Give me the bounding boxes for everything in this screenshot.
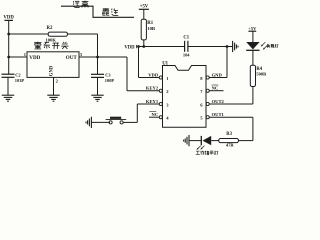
ground (below C2) — [2, 95, 14, 101]
hall GND pin stub wire — [53, 77, 55, 95]
svg-text:5: 5 — [200, 116, 203, 121]
wire ground to switch — [91, 121, 110, 123]
wire LED D1 to R4 — [252, 50, 254, 65]
ground (switch, rotated left) — [86, 117, 91, 128]
svg-text:VDD: VDD — [124, 45, 135, 50]
label 工作指示灯 — [196, 151, 218, 155]
power symbol VDD (top-left) — [3, 15, 14, 34]
wire R1 to VDD rail — [143, 40, 145, 47]
svg-text:+5V: +5V — [248, 26, 257, 31]
ground (below hall switch) — [47, 95, 59, 101]
svg-text:10R: 10R — [147, 26, 156, 31]
hall pin label GND (rotated) — [50, 65, 55, 76]
node: VDD rail / R1 junction — [142, 45, 145, 48]
ground (top, rotated right) — [227, 41, 238, 52]
svg-text:2: 2 — [56, 79, 58, 84]
label 靠近 (near) — [102, 8, 118, 15]
power symbol +5V (above R1) — [139, 4, 149, 19]
svg-text:7: 7 — [200, 89, 203, 94]
LED D2 工作指示灯 (work indicator) — [201, 136, 211, 145]
svg-text:NC: NC — [212, 86, 219, 91]
svg-text:100K: 100K — [46, 38, 57, 43]
svg-text:OUT1: OUT1 — [212, 112, 225, 117]
push-button switch S1 — [106, 117, 127, 124]
wire VDD rail — [139, 46, 185, 48]
U1 pin 8 (GND) — [200, 73, 222, 81]
svg-text:8: 8 — [200, 76, 203, 81]
svg-text:4: 4 — [166, 116, 169, 121]
svg-text:6: 6 — [200, 102, 203, 107]
U1 pin 2 (KEY2) — [146, 86, 169, 94]
U1 pin 5 (OUT1) — [200, 112, 224, 120]
pin number 3 (hall OUT pin) — [80, 52, 83, 57]
node: ground junction (C1 / U1 pin 8) — [226, 45, 229, 48]
svg-text:2: 2 — [166, 89, 169, 94]
wire C2 to ground — [7, 77, 9, 95]
wire U1 pin 7 NC stub — [209, 85, 223, 91]
ground (bottom, rotated left) — [184, 135, 189, 146]
wire C1 to ground junction — [188, 46, 227, 48]
wire hall OUT down to U1 pin 2 KEY2 — [127, 57, 159, 91]
node: OUT / C3 junction — [96, 56, 99, 59]
svg-text:NC: NC — [152, 112, 159, 117]
svg-text:47R: 47R — [226, 143, 235, 148]
resistor R2 100K (pull-up) — [46, 26, 68, 42]
label 霍尔开关 (hall switch title) — [34, 42, 68, 49]
svg-text:1: 1 — [166, 76, 169, 81]
wire U1 pin 8 GND to top ground junction — [209, 47, 227, 78]
pin number 2 (hall GND pin) — [56, 79, 58, 84]
svg-text:104: 104 — [183, 53, 190, 58]
U1 pin 3 (KEY1) — [146, 99, 169, 107]
wire VDD rail elbow down to U1 pin 1 — [139, 47, 160, 78]
node: VDD rail junction at R2 tap — [7, 33, 10, 36]
LED D1 负载灯 (load lamp) — [246, 42, 259, 50]
resistor R4 500R — [250, 65, 267, 86]
node: junction VDD to hall pin 1 — [7, 56, 10, 59]
power symbol +5V (above LED D1) — [248, 26, 257, 42]
op-amp / MCU U1 box with notch — [162, 62, 206, 128]
svg-text:R3: R3 — [226, 132, 232, 137]
LED D2 arrows — [197, 146, 205, 150]
pin number 1 (hall VDD pin) — [24, 52, 26, 57]
wire to hall switch pin 1 — [9, 56, 27, 58]
svg-text:100P: 100P — [105, 78, 115, 83]
wire R4 down to U1 pin 6 OUT2 — [209, 87, 253, 105]
svg-text:KEY1: KEY1 — [146, 99, 159, 104]
svg-text:500R: 500R — [256, 72, 267, 77]
svg-text:GND: GND — [212, 73, 223, 78]
wire hall OUT to KEY2 elbow — [79, 56, 127, 58]
annotation waveform step (hall output levels) — [61, 6, 134, 17]
wire C3 to ground — [97, 77, 99, 95]
svg-text:KEY2: KEY2 — [146, 86, 159, 91]
U1 pin 6 (OUT2) — [200, 99, 224, 107]
svg-text:1: 1 — [24, 52, 26, 57]
wire OUT junction down to C3 — [97, 57, 99, 74]
svg-text:R2: R2 — [47, 26, 53, 31]
hall pin label OUT — [66, 55, 78, 61]
U1 pin 7 (NC) — [200, 86, 218, 94]
wire R3 to LED D2 — [211, 140, 219, 142]
wire R2 to OUT net vertical — [67, 34, 97, 57]
svg-text:+5V: +5V — [140, 4, 149, 9]
node: VDD rail / pin-1 drop junction — [137, 45, 140, 48]
svg-text:C1: C1 — [183, 36, 189, 41]
capacitor C3 100P — [91, 73, 114, 83]
wire switch to U1 pin 3 KEY1 — [123, 104, 159, 122]
svg-text:3: 3 — [166, 102, 169, 107]
label 负载灯 — [267, 44, 279, 48]
resistor R1 10R — [141, 19, 156, 40]
hall pin label VDD — [29, 55, 40, 61]
capacitor C2 103P — [2, 73, 25, 83]
svg-text:U1: U1 — [162, 62, 168, 67]
net label VDD (IC supply rail) — [124, 45, 136, 51]
label 远离 (far) — [73, 1, 88, 8]
svg-text:VDD: VDD — [29, 55, 40, 61]
svg-text:VDD: VDD — [148, 73, 159, 78]
hall switch component box 霍尔开关 — [27, 52, 79, 78]
svg-text:103P: 103P — [15, 78, 25, 83]
U1 pin 1 (VDD) — [148, 73, 169, 81]
wire LED D2 to ground — [189, 140, 201, 142]
U1 pin 4 (NC) — [152, 112, 170, 120]
wire: left VDD vertical down to C2 — [8, 34, 10, 74]
svg-text:VDD: VDD — [3, 15, 14, 20]
wire VDD rail to resistor R2 — [9, 33, 49, 35]
svg-text:GND: GND — [50, 65, 55, 76]
svg-text:OUT: OUT — [66, 55, 78, 61]
ground (below C3) — [91, 95, 103, 101]
svg-text:3: 3 — [80, 52, 83, 57]
wire U1 pin 5 OUT1 to R3 — [209, 117, 253, 140]
resistor R3 47R — [219, 132, 239, 147]
svg-text:OUT2: OUT2 — [212, 99, 225, 104]
capacitor C1 104 (decoupling) — [183, 36, 190, 58]
wire U1 pin 4 NC stub — [149, 112, 159, 118]
LED D1 arrows — [261, 42, 268, 50]
